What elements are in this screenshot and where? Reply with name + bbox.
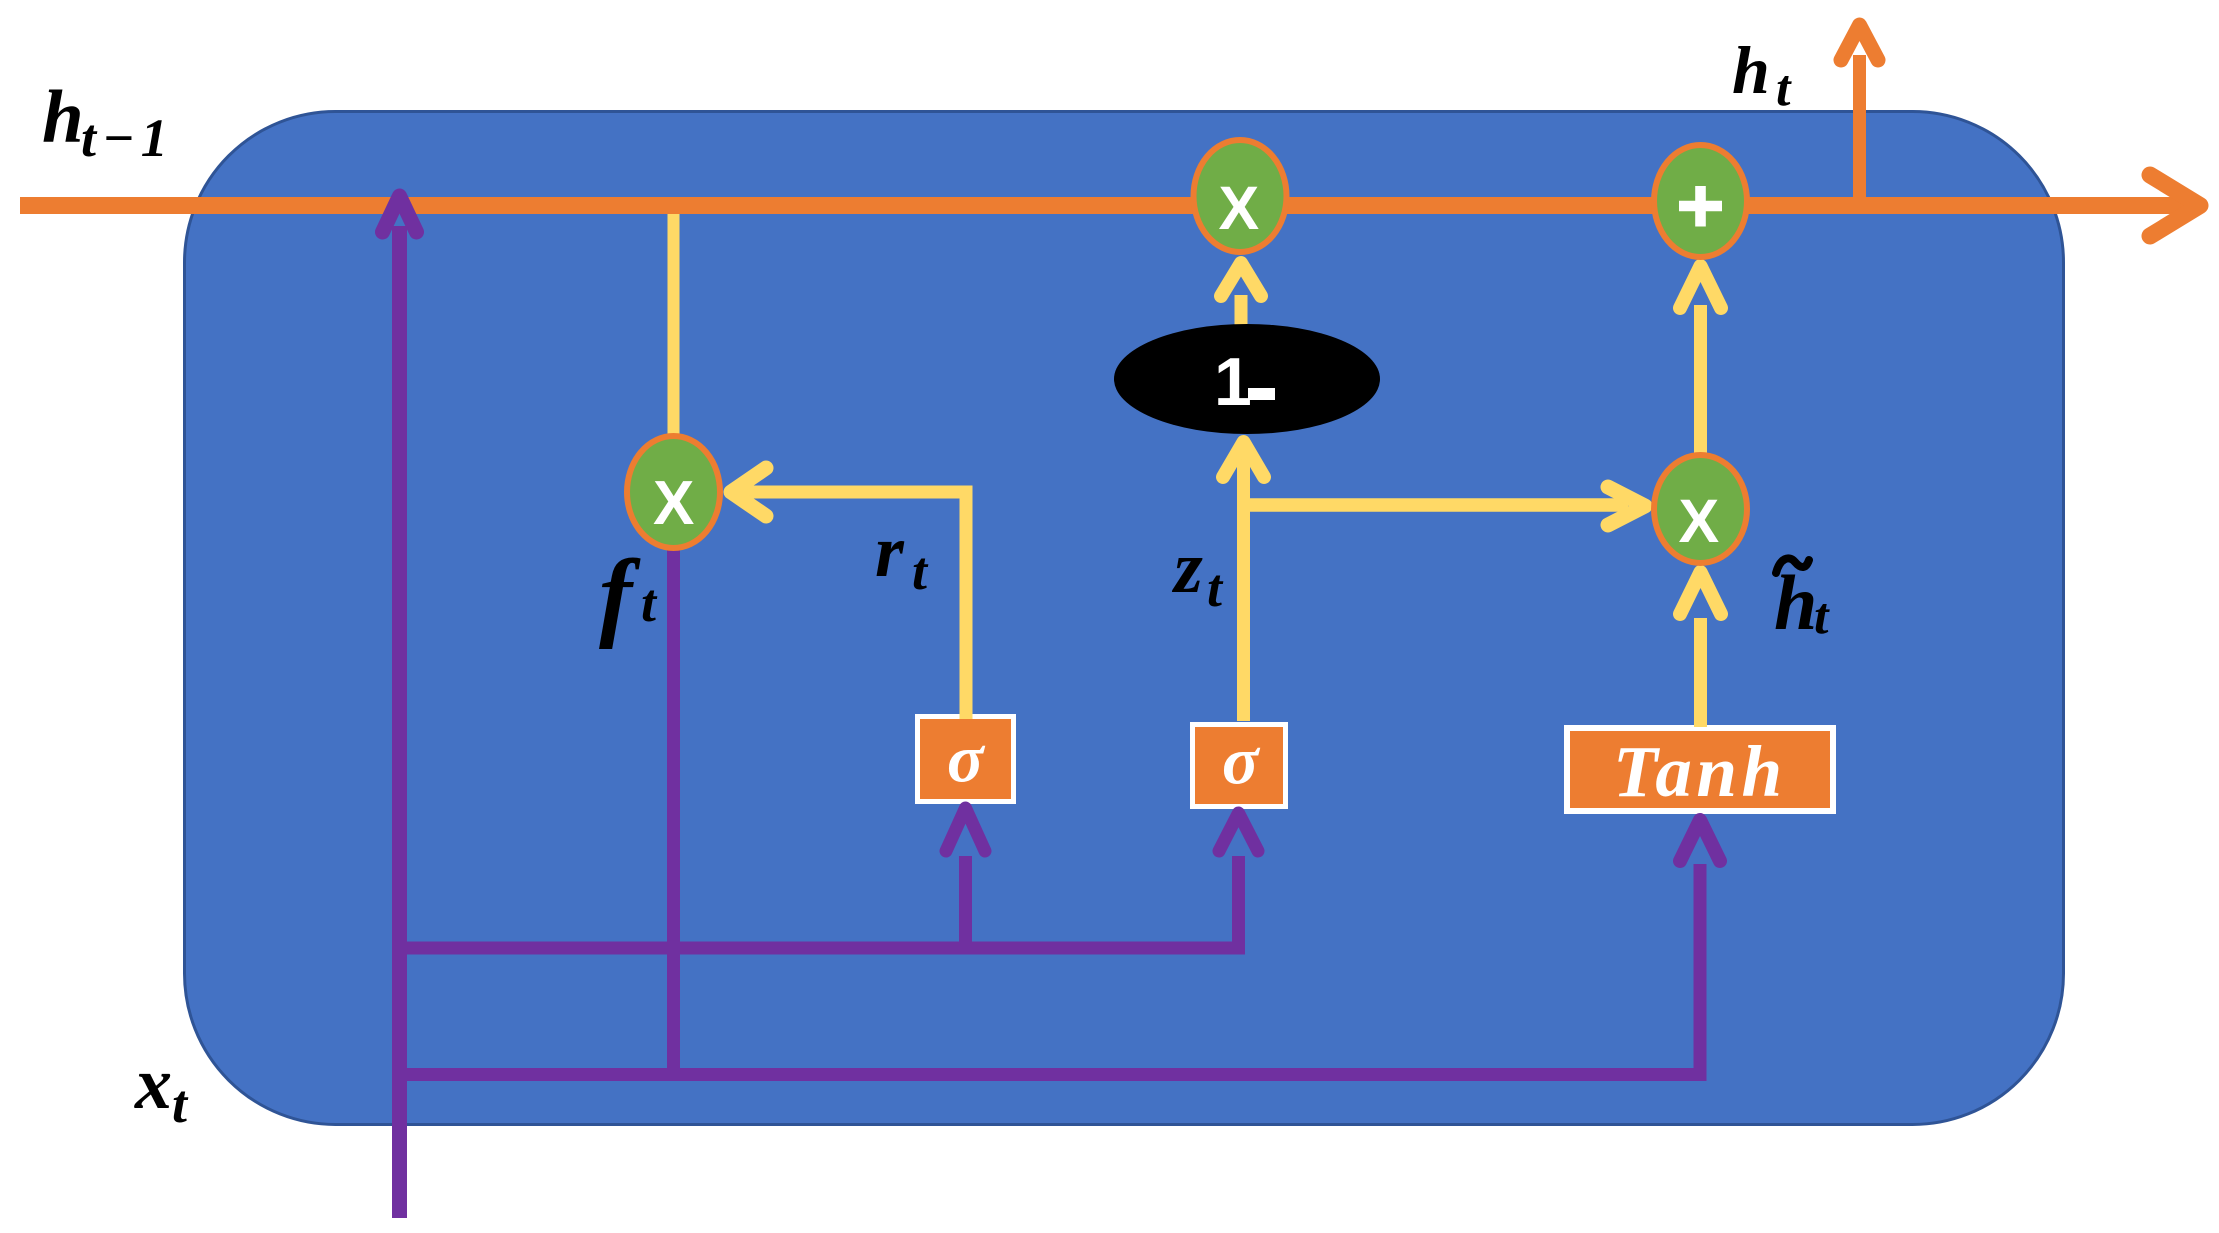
arrowhead yellow into multiply htilde [1608, 487, 1645, 525]
arrowhead yellow into multiply z [1221, 263, 1261, 296]
arrowhead yellow into 1- ellipse [1223, 442, 1264, 477]
svg-text:σ: σ [1222, 723, 1261, 799]
wire yellow f vertical (h-line to multiply ft) [668, 200, 680, 450]
op multiply ft [627, 436, 720, 548]
wire yellow above 1- ellipse [1235, 295, 1248, 330]
arrowhead yellow into multiply htilde bottom [1680, 572, 1721, 614]
svg-text:1: 1 [1214, 344, 1252, 420]
wire purple lower distribution horizontal 1 with elbow to sigma z [400, 856, 1239, 948]
svg-text:h: h [1774, 559, 1817, 646]
svg-text:σ: σ [947, 721, 986, 797]
svg-text:t: t [641, 573, 658, 633]
wire purple below multiply ft down to horizontal 2 [667, 545, 680, 1074]
svg-text:X: X [1679, 487, 1720, 555]
wire purple lower distribution horizontal 2 with elbow to Tanh [400, 864, 1701, 1075]
wire yellow Tanh up to multiply htilde [1694, 618, 1707, 727]
wire purple branch up to sigma r [959, 856, 972, 948]
svg-text:r: r [875, 511, 905, 593]
svg-text:h: h [1732, 32, 1770, 108]
sigma r box [918, 717, 1014, 802]
wire yellow multiply htilde up to add [1694, 305, 1707, 455]
op multiply htilde [1654, 455, 1747, 563]
wire yellow zt vertical (sigma z up to 1- ellipse) [1237, 448, 1250, 721]
svg-text:z: z [1171, 527, 1203, 609]
op multiply on h-line (z gate) [1194, 140, 1287, 252]
svg-text:t: t [1814, 588, 1830, 645]
Tanh box [1567, 728, 1833, 811]
svg-text:t: t [1207, 558, 1224, 618]
svg-text:Tanh: Tanh [1613, 731, 1787, 812]
arrowhead purple into sigma z [1219, 813, 1258, 851]
label plus sign [1679, 186, 1722, 227]
label minus of 1- [1248, 388, 1275, 400]
arrowhead yellow into multiply ft [731, 468, 766, 516]
svg-text:t: t [912, 541, 929, 601]
arrowhead purple into Tanh [1680, 820, 1720, 861]
svg-text:t: t [1776, 60, 1792, 117]
svg-text:t−1: t−1 [81, 108, 174, 168]
arrowhead orange h(t) up [1841, 25, 1878, 60]
arrowhead orange right end [2150, 175, 2200, 236]
wire orange h(t-1) to h(t) main horizontal [20, 197, 2185, 214]
svg-text:X: X [653, 469, 694, 538]
wire orange h(t) output vertical [1853, 55, 1866, 214]
op add [1654, 145, 1747, 257]
label tilde accent of htilde [1776, 558, 1809, 573]
svg-text:X: X [1219, 174, 1260, 242]
GRU cell body [185, 112, 2064, 1125]
arrowhead purple x(t) up over h-line [383, 196, 417, 232]
wire purple x(t) main vertical [392, 226, 407, 1218]
wire yellow junction horizontal (zt to multiply htilde) [1244, 498, 1629, 512]
1- ellipse [1114, 324, 1380, 434]
arrowhead yellow into add [1680, 266, 1721, 308]
arrowhead purple into sigma r [946, 808, 985, 851]
sigma z box [1193, 725, 1286, 807]
wire yellow rt elbow (sigma r up and left to multiply ft) [737, 492, 966, 719]
svg-text:t: t [172, 1074, 189, 1134]
svg-text:h: h [42, 76, 84, 159]
svg-text:x: x [134, 1043, 172, 1125]
